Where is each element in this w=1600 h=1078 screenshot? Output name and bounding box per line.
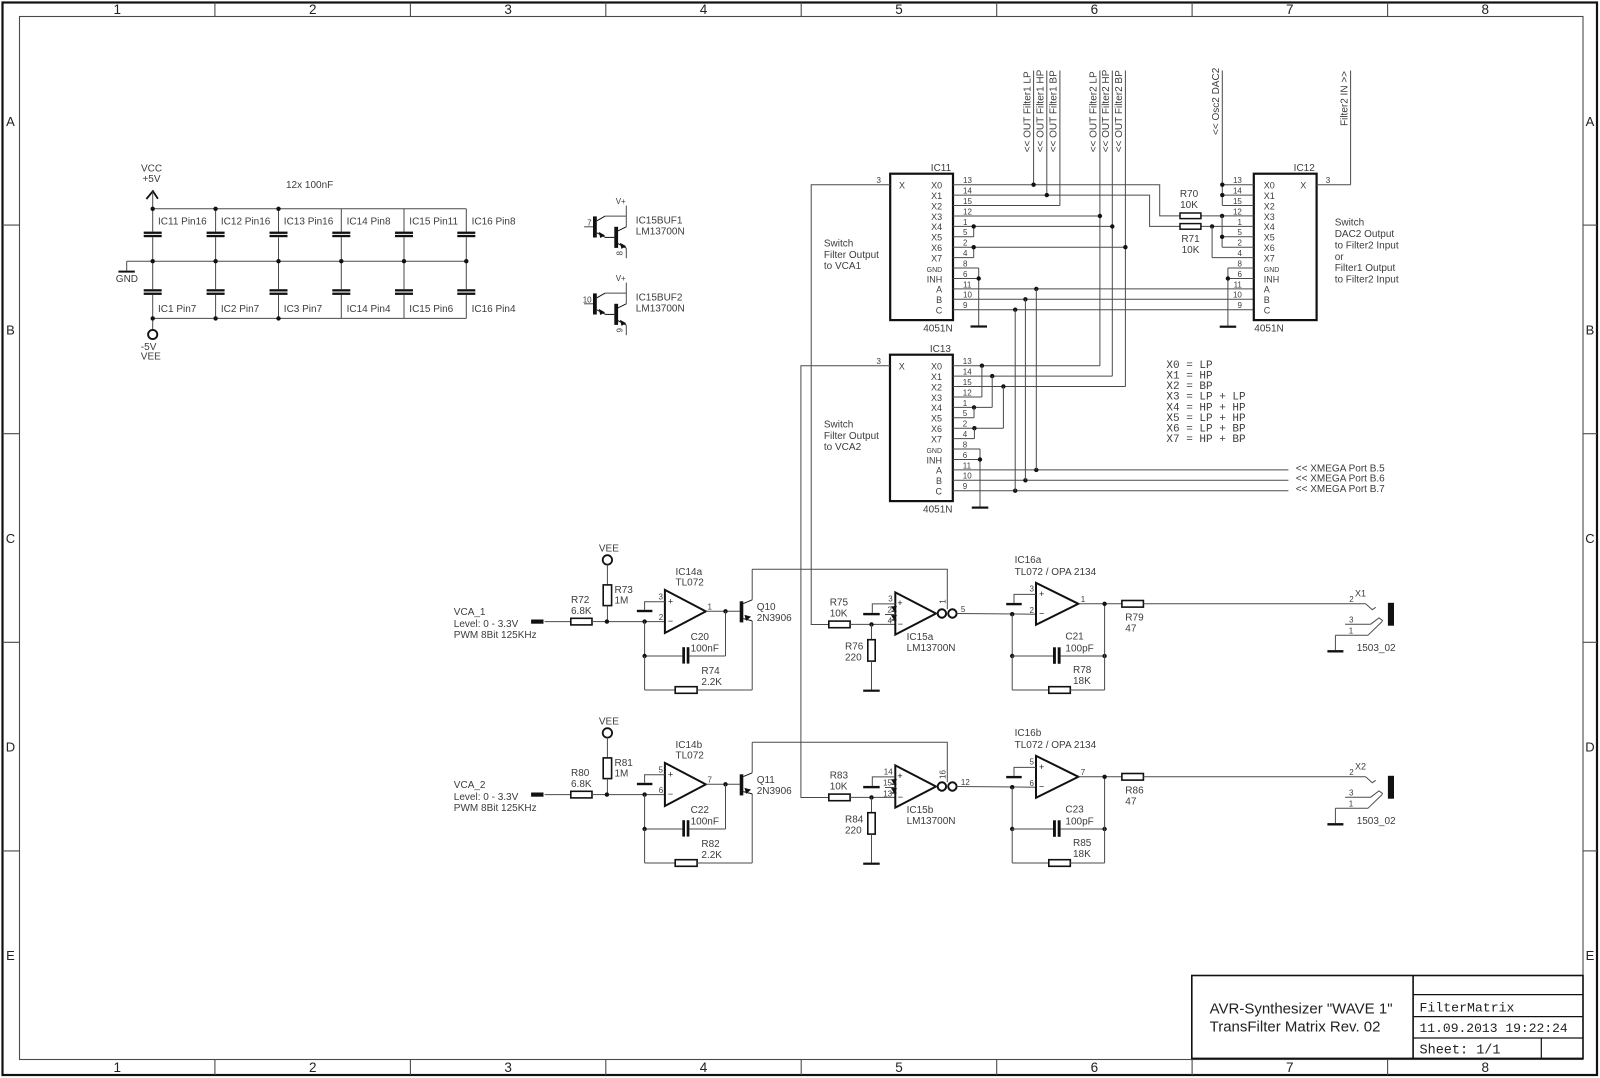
svg-text:4: 4 [1237,249,1242,258]
svg-text:2.2K: 2.2K [701,850,722,861]
svg-text:5: 5 [963,228,968,237]
svg-text:C: C [936,487,943,497]
IC16b output wire [1078,775,1122,779]
svg-text:to VCA1: to VCA1 [824,261,862,272]
capacitor IC15 Pin6 (100nF) [395,261,454,318]
capacitor C23 100pF [1010,777,1107,837]
resistor R78 18K [1012,656,1104,693]
svg-text:−: − [898,619,903,629]
wire IC11 C to IC12 C [953,308,1254,312]
svg-text:VEE: VEE [599,544,619,555]
svg-text:IC15b: IC15b [907,805,934,816]
svg-text:2: 2 [1349,768,1354,777]
svg-text:X5: X5 [931,233,942,243]
svg-text:X2: X2 [1264,201,1275,211]
power symbol VEE for R81 [599,717,619,758]
svg-text:X: X [899,181,905,191]
svg-text:LM13700N: LM13700N [907,643,956,654]
capacitor IC14 Pin8 (100nF) [332,209,391,261]
svg-text:GND: GND [927,267,943,274]
svg-text:Filter2 IN >>: Filter2 IN >> [1339,71,1350,126]
svg-text:12: 12 [1233,207,1242,216]
svg-text:−: − [668,616,673,626]
svg-text:X3: X3 [931,212,942,222]
wire R70 to IC12 X3 X5 X6 [1201,214,1254,248]
wire R71 to IC12 X4 X7 [1201,224,1254,257]
op-amp IC14a TL072 [659,567,713,633]
svg-text:2N3906: 2N3906 [757,786,792,797]
svg-text:D: D [1585,740,1594,755]
junction dots cap bank [151,207,469,321]
wire bracket IC13 X2-X6 [953,387,1004,431]
ground X1 [1327,650,1343,652]
net label Osc2 DAC2 with wire [1211,67,1222,205]
svg-text:14: 14 [1233,187,1242,196]
svg-text:R71: R71 [1181,234,1200,245]
svg-text:X1: X1 [1264,191,1275,201]
svg-text:C: C [1585,531,1594,546]
svg-text:IC14 Pin4: IC14 Pin4 [347,304,391,315]
svg-text:Switch: Switch [824,239,853,250]
svg-text:4: 4 [963,249,968,258]
svg-text:B: B [1586,322,1595,337]
svg-text:B: B [936,476,942,486]
resistor R73 1M [603,585,633,622]
svg-text:6.8K: 6.8K [571,779,592,790]
svg-text:12: 12 [963,207,972,216]
wire VCC top rail [153,208,467,210]
net label OUT Filter2 BP with wire [1114,70,1125,387]
svg-text:14: 14 [884,768,893,777]
wire bracket IC11 X6-X7 [953,245,976,258]
svg-text:10K: 10K [1182,245,1200,256]
svg-text:X6: X6 [1264,243,1275,253]
wire IC12 pin3 to Filter2 IN [1317,184,1351,186]
IC16a + input to ground [1006,594,1036,605]
svg-text:4: 4 [888,616,893,625]
svg-text:3: 3 [888,595,893,604]
svg-text:X4: X4 [1264,222,1275,232]
svg-text:X4: X4 [931,403,942,413]
svg-text:7: 7 [1081,768,1086,777]
svg-text:IC13: IC13 [930,344,952,355]
svg-text:8: 8 [963,259,968,268]
IC11 pin numbers [963,176,972,310]
svg-text:to Filter2 Input: to Filter2 Input [1335,240,1399,251]
OTA IC15b LM13700N [883,765,970,827]
svg-text:A: A [1264,285,1270,295]
wire IC13 GND-INH [953,449,982,507]
svg-text:IC16 Pin4: IC16 Pin4 [472,304,516,315]
svg-text:IC2 Pin7: IC2 Pin7 [221,304,260,315]
IC16a output wire [1078,602,1122,606]
wire input node [605,619,665,623]
svg-text:Filter1 Output: Filter1 Output [1335,263,1396,274]
svg-text:TL072 / OPA 2134: TL072 / OPA 2134 [1015,567,1097,578]
op-amp IC16b TL072/OPA2134 [1015,728,1097,798]
svg-text:100nF: 100nF [691,643,719,654]
svg-text:IC16 Pin8: IC16 Pin8 [472,216,516,227]
wire IC15b output to IC16b [957,786,1036,789]
svg-text:4: 4 [700,2,708,17]
svg-text:R86: R86 [1125,786,1144,797]
transistor Q10 2N3906 [740,569,792,624]
capacitor C20 100nF [642,611,725,663]
resistor R70 10K [1180,189,1201,219]
svg-text:4: 4 [700,1060,708,1075]
svg-text:PWM 8Bit 125KHz: PWM 8Bit 125KHz [454,630,537,641]
svg-text:15: 15 [1233,197,1242,206]
svg-text:R78: R78 [1073,665,1092,676]
svg-text:1: 1 [1349,627,1354,636]
svg-text:10: 10 [963,291,972,300]
svg-text:R70: R70 [1180,189,1199,200]
power symbol VCC +5V [141,164,162,209]
svg-text:R80: R80 [571,768,590,779]
svg-text:R84: R84 [845,815,864,826]
svg-text:to VCA2: to VCA2 [824,442,862,453]
net label OUT Filter1 LP with wire [1022,71,1033,185]
svg-text:FilterMatrix: FilterMatrix [1420,1000,1515,1015]
svg-text:18K: 18K [1073,676,1091,687]
svg-text:1: 1 [963,218,968,227]
svg-text:E: E [6,948,15,963]
svg-text:C22: C22 [691,805,710,816]
svg-text:6: 6 [1091,2,1099,17]
capacitor IC16 Pin4 (100nF) [457,261,516,318]
svg-text:15: 15 [963,197,972,206]
svg-text:+: + [897,771,902,781]
wire Q10 collector to IC15a bias [752,569,947,609]
svg-text:11: 11 [963,280,972,289]
svg-text:X0: X0 [931,362,942,372]
capacitor IC16 Pin8 (100nF) [457,209,516,261]
svg-text:4: 4 [963,430,968,439]
svg-text:IC1 Pin7: IC1 Pin7 [158,304,197,315]
svg-text:3: 3 [877,357,882,366]
wire IC12 GND-INH [1226,268,1254,326]
svg-text:<< OUT Filter1 BP: << OUT Filter1 BP [1049,70,1060,152]
svg-text:−: − [668,789,673,799]
svg-text:2: 2 [1349,595,1354,604]
IC IC13 4051N box [890,344,953,516]
svg-text:6: 6 [1029,779,1034,788]
svg-text:10: 10 [1233,291,1242,300]
capacitor IC11 Pin16 (100nF) [144,209,207,261]
svg-text:10K: 10K [830,781,848,792]
svg-text:13: 13 [883,789,892,798]
svg-text:Level: 0 - 3.3V: Level: 0 - 3.3V [454,619,519,630]
svg-text:6: 6 [659,786,664,795]
svg-text:1: 1 [939,599,948,604]
wire IC13 C to XMEGA Port B.7 [953,484,1385,495]
svg-text:C23: C23 [1065,805,1084,816]
IC14a output wire to Q10 [706,609,740,613]
resistor R74 2.2K [645,621,753,693]
svg-text:9: 9 [963,301,968,310]
svg-text:D: D [6,740,15,755]
svg-text:C: C [1264,306,1271,316]
svg-text:8: 8 [1482,1060,1490,1075]
svg-text:10K: 10K [830,608,848,619]
label VCA_1 input description [454,607,537,641]
svg-text:5: 5 [963,409,968,418]
wire IC13 pin3 to R83 [801,366,890,798]
svg-text:VEE: VEE [141,352,161,363]
label VCA_2 input description [454,780,537,814]
svg-text:X1: X1 [931,372,942,382]
ground IC13 [972,507,989,509]
svg-text:X3: X3 [1264,212,1275,222]
net label OUT Filter1 BP with wire [1049,70,1060,206]
svg-text:GND: GND [1264,267,1280,274]
wire IC11 X3 (OUT Filter2 LP) [953,214,1102,218]
svg-text:X3: X3 [931,393,942,403]
svg-text:9: 9 [1237,301,1242,310]
svg-text:5: 5 [1237,228,1242,237]
svg-text:3: 3 [504,1060,512,1075]
wire IC11 A to IC12 A [953,287,1254,291]
net label OUT Filter2 HP with wire [1101,69,1112,376]
capacitor C21 100pF [1010,604,1107,664]
power symbol VEE for R73 [599,544,619,585]
svg-text:−: − [1039,782,1044,792]
svg-text:X2: X2 [931,382,942,392]
svg-text:9: 9 [963,482,968,491]
op-amp IC16a TL072/OPA2134 [1015,555,1097,625]
svg-text:+: + [897,598,902,608]
svg-text:8: 8 [616,250,625,255]
svg-text:2: 2 [963,420,968,429]
svg-text:11.09.2013 19:22:24: 11.09.2013 19:22:24 [1420,1021,1568,1036]
svg-text:<< OUT Filter1 HP: << OUT Filter1 HP [1036,69,1047,152]
svg-text:IC14b: IC14b [676,740,703,751]
svg-text:+: + [1039,589,1044,599]
svg-text:IC16a: IC16a [1015,555,1042,566]
wire IC13 A to XMEGA Port B.5 [953,463,1385,474]
svg-text:R85: R85 [1073,838,1092,849]
resistor R76 220 [845,624,875,689]
svg-text:1: 1 [113,2,121,17]
net label Filter2 IN with wire [1339,71,1350,185]
svg-text:12: 12 [963,388,972,397]
svg-text:<< XMEGA Port B.5: << XMEGA Port B.5 [1296,463,1385,474]
svg-text:to Filter2 Input: to Filter2 Input [1335,275,1399,286]
resistor R79 47 [1122,601,1366,635]
svg-text:100nF: 100nF [691,816,719,827]
resistor R75 10K [829,597,896,627]
wire Osc2 DAC2 to IC12 X0 X1 X2 [1220,183,1254,206]
label Switch DAC2 Output block [1335,218,1399,286]
svg-text:<< OUT Filter2 BP: << OUT Filter2 BP [1114,70,1125,152]
svg-text:VCC: VCC [141,164,162,175]
svg-text:VCA_1: VCA_1 [454,607,486,618]
IC13 pin names [899,362,943,497]
ground IC11 [971,325,988,327]
resistor R81 1M [603,758,633,795]
svg-text:E: E [1586,948,1595,963]
transistor buffer IC15BUF1 LM13700N [584,197,685,258]
node VCA_2 input stub [531,793,571,797]
svg-text:220: 220 [845,826,862,837]
svg-text:2: 2 [1237,239,1242,248]
svg-text:IC15 Pin11: IC15 Pin11 [409,216,458,227]
svg-text:6: 6 [963,270,968,279]
wire Q11 collector to IC15b bias [752,742,947,782]
svg-text:X: X [1300,181,1306,191]
svg-text:X2: X2 [931,201,942,211]
svg-text:IC15BUF1: IC15BUF1 [636,216,683,227]
IC14a + input to ground [637,602,665,613]
IC13 pin numbers [963,357,972,491]
net label OUT Filter2 LP with wire [1089,71,1100,366]
IC12 pin names [1264,181,1307,316]
title text AVR-Synthesizer [1210,1001,1393,1036]
svg-text:+5V: +5V [142,174,160,185]
svg-text:2: 2 [1029,606,1034,615]
capacitor IC2 Pin7 (100nF) [207,261,260,318]
svg-text:LM13700N: LM13700N [636,303,685,314]
svg-text:100pF: 100pF [1065,644,1093,655]
resistor R80 6.8K [571,768,607,798]
capacitor IC12 Pin16 (100nF) [207,209,271,261]
svg-text:A: A [6,114,15,129]
svg-text:IC11 Pin16: IC11 Pin16 [158,216,207,227]
wire bracket IC13 X0-X3 [953,366,982,397]
svg-text:7: 7 [1286,1060,1294,1075]
svg-text:A: A [1586,114,1595,129]
svg-text:IC11: IC11 [931,163,952,174]
svg-text:15: 15 [883,779,892,788]
svg-text:LM13700N: LM13700N [636,226,685,237]
svg-text:X0: X0 [931,181,942,191]
capacitor C22 100nF [642,784,725,836]
svg-text:1M: 1M [615,768,629,779]
svg-text:1: 1 [1237,218,1242,227]
svg-text:1: 1 [113,1060,121,1075]
wire IC13 B to XMEGA Port B.6 [953,474,1385,485]
svg-text:15: 15 [963,378,972,387]
svg-text:2: 2 [309,2,317,17]
svg-text:10: 10 [583,295,592,304]
svg-text:13: 13 [1233,176,1242,185]
connector X1 jack 1503_02 [1335,589,1396,654]
svg-text:5: 5 [961,605,966,614]
op-amp IC14b TL072 [659,740,713,806]
svg-text:4051N: 4051N [923,505,952,516]
svg-text:13: 13 [963,357,972,366]
svg-text:IC13 Pin16: IC13 Pin16 [284,216,334,227]
ground R84 [863,863,880,865]
svg-text:1: 1 [1081,595,1086,604]
svg-text:TL072: TL072 [676,577,705,588]
svg-text:X4: X4 [931,222,942,232]
svg-text:3: 3 [1349,788,1354,797]
svg-text:8: 8 [1482,2,1490,17]
svg-text:TL072: TL072 [676,750,705,761]
svg-text:R72: R72 [571,595,590,606]
wire IC11 X4 (OUT Filter2 HP) [953,224,1115,228]
svg-text:2: 2 [659,613,664,622]
IC15a + input to ground [863,604,895,615]
svg-text:X7: X7 [1264,253,1275,263]
svg-text:12x 100nF: 12x 100nF [286,180,333,191]
svg-text:IC14a: IC14a [676,567,703,578]
svg-text:X6: X6 [931,424,942,434]
svg-text:7: 7 [1286,2,1294,17]
svg-text:5: 5 [1029,758,1034,767]
svg-text:<< OUT Filter2 HP: << OUT Filter2 HP [1101,69,1112,152]
svg-text:2: 2 [963,239,968,248]
label Switch Filter Output to VCA1 [824,239,879,273]
svg-text:B: B [936,295,942,305]
svg-text:100pF: 100pF [1065,817,1093,828]
svg-text:IC15BUF2: IC15BUF2 [636,293,683,304]
svg-text:9: 9 [616,327,625,332]
svg-text:−: − [1039,609,1044,619]
svg-text:<< XMEGA Port B.7: << XMEGA Port B.7 [1296,484,1385,495]
wire vertical A net IC11-IC13 [1035,289,1037,470]
svg-text:X2: X2 [1355,762,1366,772]
svg-text:or: or [1335,252,1345,263]
wire IC13 X0 (OUT Filter2 LP) [953,364,1100,368]
wire IC11 X6 (OUT Filter2 BP) [953,245,1128,249]
svg-text:IC15 Pin6: IC15 Pin6 [409,304,453,315]
svg-text:+: + [668,596,673,606]
capacitor IC1 Pin7 (100nF) [144,261,197,318]
svg-text:R82: R82 [701,839,720,850]
svg-text:47: 47 [1125,796,1137,807]
svg-text:X1: X1 [1355,589,1366,599]
transistor buffer IC15BUF2 LM13700N [583,274,685,335]
svg-text:2.2K: 2.2K [701,677,722,688]
resistor R83 10K [829,770,896,800]
svg-text:TL072 / OPA 2134: TL072 / OPA 2134 [1015,740,1097,751]
svg-text:X1: X1 [931,191,942,201]
svg-text:−: − [898,792,903,802]
capacitor IC15 Pin11 (100nF) [395,209,458,261]
wire VEE bottom rail [153,317,467,319]
svg-text:R75: R75 [830,597,849,608]
svg-text:3: 3 [659,593,664,602]
svg-text:R76: R76 [845,642,864,653]
svg-text:C: C [936,306,943,316]
svg-text:VEE: VEE [599,717,619,728]
label Switch Filter Output to VCA2 [824,420,879,454]
svg-text:IC12 Pin16: IC12 Pin16 [221,216,271,227]
svg-text:+: + [1039,762,1044,772]
svg-text:GND: GND [116,274,138,285]
svg-text:2: 2 [309,1060,317,1075]
wire bracket IC13 X1-X4 [953,376,992,409]
IC16b + input to ground [1006,767,1036,778]
svg-text:1503_02: 1503_02 [1357,816,1396,827]
svg-text:AVR-Synthesizer "WAVE 1": AVR-Synthesizer "WAVE 1" [1210,1001,1393,1018]
svg-text:IC12: IC12 [1294,163,1316,174]
svg-text:10: 10 [963,472,972,481]
wire GND mid rail [127,261,467,270]
svg-text:10K: 10K [1180,200,1198,211]
resistor R84 220 [845,797,875,862]
svg-text:<< Osc2 DAC2: << Osc2 DAC2 [1211,67,1222,135]
svg-text:2N3906: 2N3906 [757,613,792,624]
svg-text:4051N: 4051N [1254,324,1283,335]
OTA IC15a LM13700N [887,592,965,654]
connector X2 jack 1503_02 [1335,762,1396,827]
svg-text:1: 1 [1349,800,1354,809]
wire IC11 X1 to R71 (OUT Filter1 HP) [953,193,1180,226]
svg-text:B: B [1264,295,1270,305]
